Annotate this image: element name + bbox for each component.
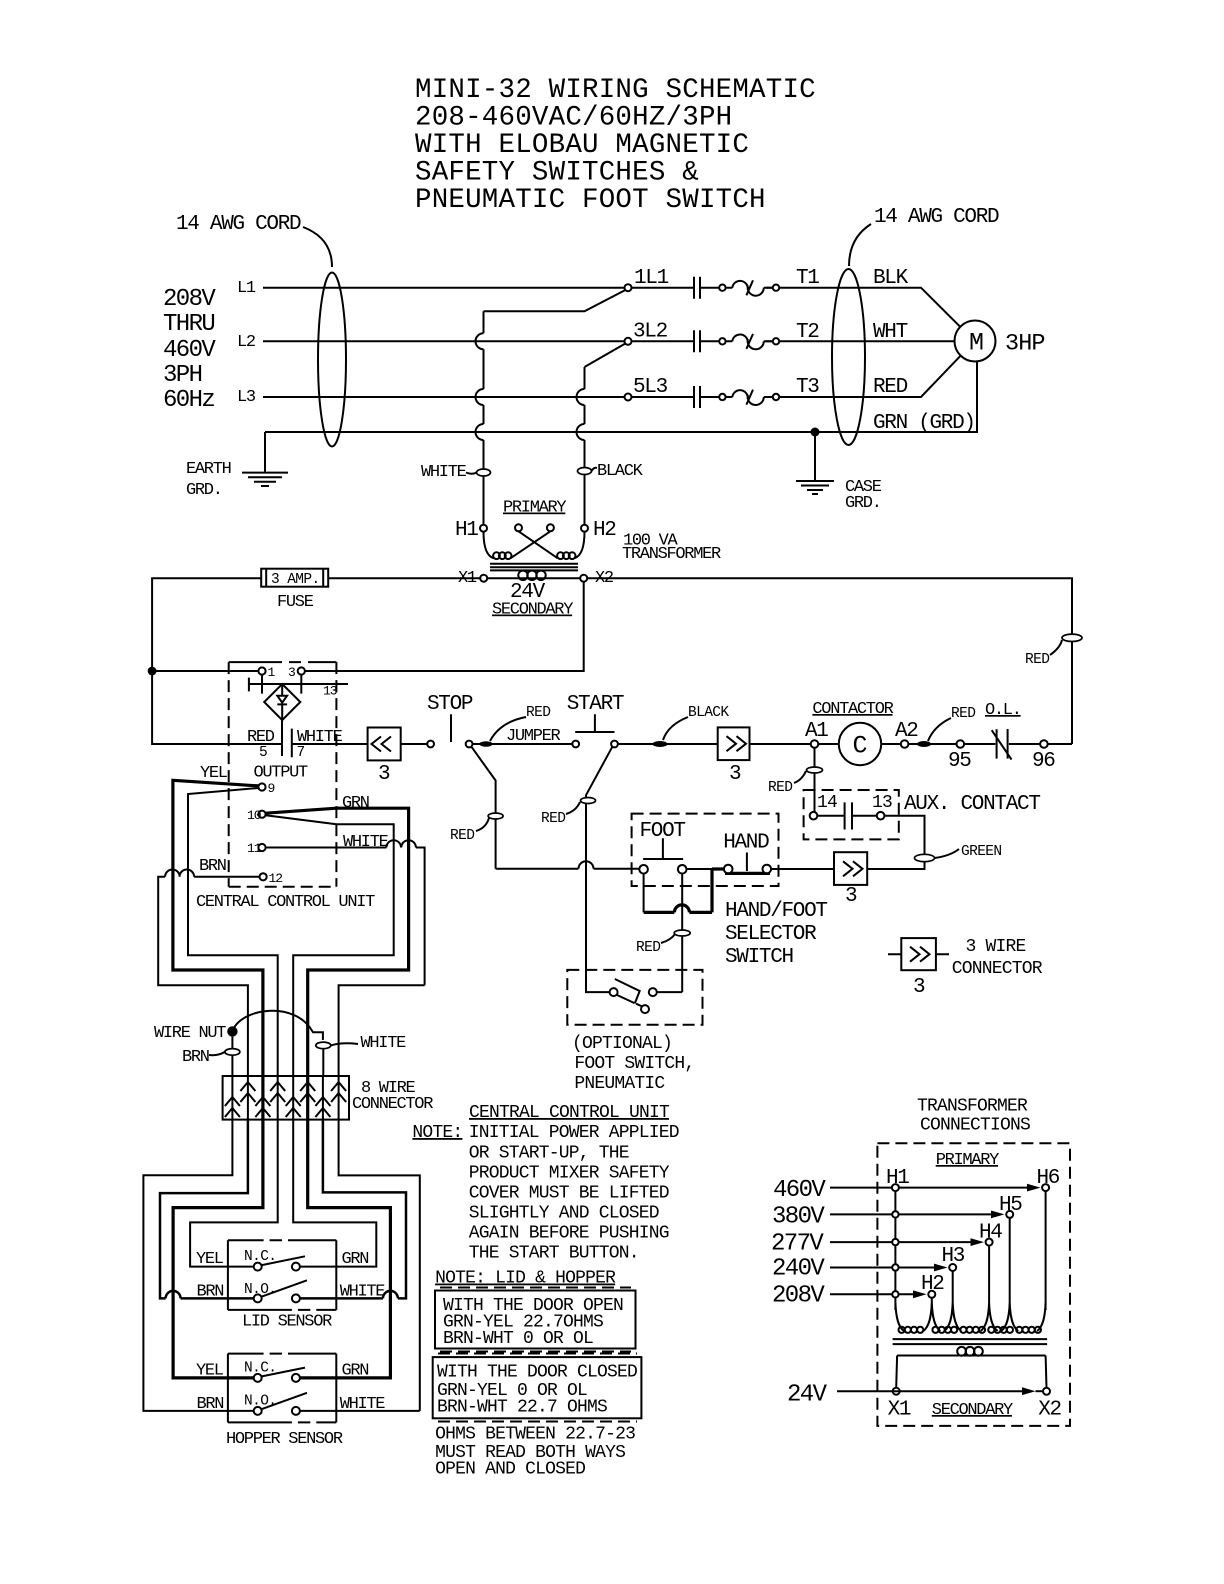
svg-text:WHITE: WHITE (361, 1034, 407, 1053)
svg-text:WHITE: WHITE (340, 1395, 386, 1414)
svg-text:THE START BUTTON.: THE START BUTTON. (469, 1244, 639, 1264)
svg-text:PRIMARY: PRIMARY (503, 499, 566, 518)
svg-text:GRD.: GRD. (186, 481, 222, 500)
svg-text:3: 3 (288, 665, 295, 680)
svg-text:3HP: 3HP (1005, 331, 1045, 358)
svg-text:240V: 240V (772, 1256, 825, 1283)
svg-text:14 AWG CORD: 14 AWG CORD (874, 206, 999, 229)
svg-text:GRD.: GRD. (845, 494, 881, 513)
svg-text:3: 3 (729, 763, 741, 786)
svg-text:3: 3 (845, 885, 857, 908)
svg-text:FUSE: FUSE (277, 593, 314, 612)
svg-text:24V: 24V (787, 1382, 828, 1409)
svg-text:WHITE: WHITE (340, 1283, 386, 1302)
svg-text:PRODUCT MIXER SAFETY: PRODUCT MIXER SAFETY (469, 1164, 670, 1184)
svg-text:WITH THE DOOR CLOSED: WITH THE DOOR CLOSED (437, 1363, 637, 1383)
svg-text:N.C.: N.C. (244, 1249, 276, 1265)
svg-text:RED: RED (526, 705, 550, 721)
svg-text:X1: X1 (888, 1399, 911, 1422)
svg-text:BRN-WHT 0 OR OL: BRN-WHT 0 OR OL (443, 1329, 593, 1349)
svg-text:H3: H3 (942, 1245, 965, 1268)
svg-text:RED: RED (873, 376, 908, 399)
svg-text:A2: A2 (895, 720, 918, 743)
svg-text:L2: L2 (237, 333, 255, 352)
svg-text:CONNECTOR: CONNECTOR (352, 1095, 433, 1114)
svg-text:7: 7 (297, 745, 305, 761)
svg-text:3: 3 (378, 763, 390, 786)
svg-text:H2: H2 (921, 1273, 944, 1296)
svg-text:1: 1 (268, 665, 276, 680)
svg-text:H4: H4 (979, 1222, 1002, 1245)
svg-text:HAND: HAND (723, 832, 769, 855)
svg-text:CENTRAL CONTROL UNIT: CENTRAL CONTROL UNIT (196, 893, 375, 912)
svg-text:96: 96 (1032, 750, 1055, 773)
svg-text:60Hz: 60Hz (163, 387, 214, 414)
svg-text:460V: 460V (163, 337, 216, 364)
svg-text:SELECTOR: SELECTOR (725, 923, 817, 946)
svg-text:YEL: YEL (196, 1250, 224, 1269)
svg-text:SECONDARY: SECONDARY (932, 1401, 1013, 1420)
svg-text:BLACK: BLACK (688, 705, 729, 721)
svg-text:WIRE NUT: WIRE NUT (154, 1024, 226, 1043)
svg-text:TRANSFORMER: TRANSFORMER (917, 1097, 1028, 1117)
svg-text:C: C (853, 732, 868, 761)
svg-text:YEL: YEL (196, 1362, 224, 1381)
svg-text:13: 13 (872, 793, 892, 813)
svg-text:CONNECTIONS: CONNECTIONS (920, 1116, 1030, 1136)
svg-text:BLACK: BLACK (597, 462, 644, 481)
svg-text:A1: A1 (805, 720, 828, 743)
svg-text:OR START-UP, THE: OR START-UP, THE (469, 1144, 629, 1164)
svg-text:PRIMARY: PRIMARY (936, 1151, 999, 1170)
svg-text:SECONDARY: SECONDARY (492, 601, 573, 620)
svg-text:208-460VAC/60HZ/3PH: 208-460VAC/60HZ/3PH (415, 103, 732, 134)
svg-text:START: START (567, 693, 624, 716)
svg-text:277V: 277V (771, 1231, 824, 1258)
svg-text:208V: 208V (772, 1283, 825, 1310)
svg-text:O.L.: O.L. (985, 701, 1021, 720)
svg-text:3: 3 (913, 976, 925, 999)
svg-text:EARTH: EARTH (186, 460, 231, 479)
svg-text:1L1: 1L1 (634, 267, 669, 290)
svg-text:WHT: WHT (873, 321, 908, 344)
svg-text:NOTE: LID & HOPPER: NOTE: LID & HOPPER (435, 1269, 616, 1289)
svg-text:11: 11 (247, 841, 262, 856)
svg-text:BRN: BRN (197, 1395, 224, 1414)
svg-text:GRN: GRN (342, 1362, 369, 1381)
svg-text:12: 12 (269, 871, 283, 886)
svg-text:95: 95 (948, 750, 971, 773)
svg-text:RED: RED (636, 940, 660, 956)
svg-text:N.O.: N.O. (244, 1394, 276, 1410)
svg-text:9: 9 (268, 781, 275, 796)
svg-text:BRN: BRN (199, 857, 226, 876)
svg-text:3PH: 3PH (163, 362, 202, 389)
svg-text:AGAIN BEFORE PUSHING: AGAIN BEFORE PUSHING (469, 1224, 669, 1244)
svg-text:H1: H1 (886, 1167, 909, 1190)
svg-text:5L3: 5L3 (633, 376, 668, 399)
svg-text:PNEUMATIC: PNEUMATIC (574, 1074, 665, 1094)
svg-text:L3: L3 (237, 388, 256, 407)
svg-text:14 AWG CORD: 14 AWG CORD (176, 213, 301, 236)
svg-text:PNEUMATIC FOOT SWITCH: PNEUMATIC FOOT SWITCH (415, 185, 766, 216)
svg-text:L1: L1 (237, 279, 256, 298)
svg-text:GRN: GRN (342, 794, 369, 813)
svg-text:BRN-WHT 22.7 OHMS: BRN-WHT 22.7 OHMS (437, 1398, 607, 1418)
svg-text:3L2: 3L2 (633, 321, 668, 344)
svg-text:STOP: STOP (427, 693, 473, 716)
svg-text:H6: H6 (1037, 1167, 1060, 1190)
svg-text:10: 10 (247, 808, 261, 823)
svg-text:CONNECTOR: CONNECTOR (952, 959, 1043, 979)
svg-text:OHMS BETWEEN 22.7-23: OHMS BETWEEN 22.7-23 (435, 1425, 635, 1445)
svg-text:RED: RED (541, 811, 565, 827)
svg-text:THRU: THRU (163, 311, 214, 338)
svg-text:5: 5 (259, 745, 267, 761)
svg-text:3 WIRE: 3 WIRE (966, 937, 1026, 957)
svg-text:SAFETY SWITCHES &: SAFETY SWITCHES & (415, 158, 699, 189)
svg-text:NOTE:: NOTE: (412, 1123, 462, 1143)
svg-text:H1: H1 (455, 519, 478, 542)
svg-text:YEL: YEL (200, 764, 228, 783)
svg-text:RED: RED (951, 706, 975, 722)
svg-text:N.C.: N.C. (244, 1361, 276, 1377)
svg-text:X2: X2 (1038, 1399, 1061, 1422)
svg-text:COVER MUST BE LIFTED: COVER MUST BE LIFTED (469, 1184, 669, 1204)
svg-text:N.O.: N.O. (244, 1282, 276, 1298)
svg-text:LID SENSOR: LID SENSOR (242, 1313, 332, 1332)
svg-text:INITIAL POWER APPLIED: INITIAL POWER APPLIED (469, 1123, 679, 1143)
svg-text:OUTPUT: OUTPUT (254, 763, 309, 782)
svg-text:T1: T1 (796, 267, 819, 290)
svg-text:HOPPER SENSOR: HOPPER SENSOR (226, 1430, 343, 1449)
svg-text:FOOT SWITCH,: FOOT SWITCH, (574, 1054, 694, 1074)
svg-text:(OPTIONAL): (OPTIONAL) (572, 1034, 672, 1054)
svg-text:RED: RED (1025, 652, 1049, 668)
svg-text:BLK: BLK (873, 267, 909, 290)
svg-text:RED: RED (768, 780, 792, 796)
svg-text:AUX. CONTACT: AUX. CONTACT (904, 793, 1040, 816)
svg-text:WITH ELOBAU MAGNETIC: WITH ELOBAU MAGNETIC (415, 130, 749, 161)
svg-text:GRN: GRN (342, 1250, 369, 1269)
svg-text:GREEN: GREEN (961, 844, 1002, 860)
svg-text:TRANSFORMER: TRANSFORMER (622, 545, 721, 564)
svg-text:M: M (969, 329, 984, 358)
svg-text:14: 14 (817, 793, 837, 813)
svg-text:OPEN AND CLOSED: OPEN AND CLOSED (435, 1460, 585, 1480)
svg-text:MINI-32 WIRING SCHEMATIC: MINI-32 WIRING SCHEMATIC (415, 75, 816, 106)
svg-text:460V: 460V (773, 1177, 826, 1204)
svg-text:T3: T3 (796, 376, 819, 399)
svg-text:WHITE: WHITE (343, 833, 389, 852)
svg-text:380V: 380V (772, 1204, 825, 1231)
svg-text:CENTRAL CONTROL UNIT: CENTRAL CONTROL UNIT (469, 1103, 670, 1123)
svg-text:RED: RED (450, 828, 474, 844)
svg-text:13: 13 (323, 684, 337, 699)
svg-text:BRN: BRN (197, 1283, 224, 1302)
svg-text:HAND/FOOT: HAND/FOOT (725, 900, 827, 923)
svg-text:BRN: BRN (182, 1048, 209, 1067)
svg-text:H5: H5 (999, 1194, 1022, 1217)
svg-text:CONTACTOR: CONTACTOR (812, 700, 893, 719)
svg-text:JUMPER: JUMPER (506, 727, 561, 746)
svg-text:3 AMP.: 3 AMP. (271, 572, 320, 588)
svg-text:SWITCH: SWITCH (725, 946, 793, 969)
svg-text:208V: 208V (163, 286, 216, 313)
svg-text:H2: H2 (593, 519, 616, 542)
svg-text:WHITE: WHITE (421, 463, 467, 482)
svg-text:SLIGHTLY AND CLOSED: SLIGHTLY AND CLOSED (469, 1204, 659, 1224)
